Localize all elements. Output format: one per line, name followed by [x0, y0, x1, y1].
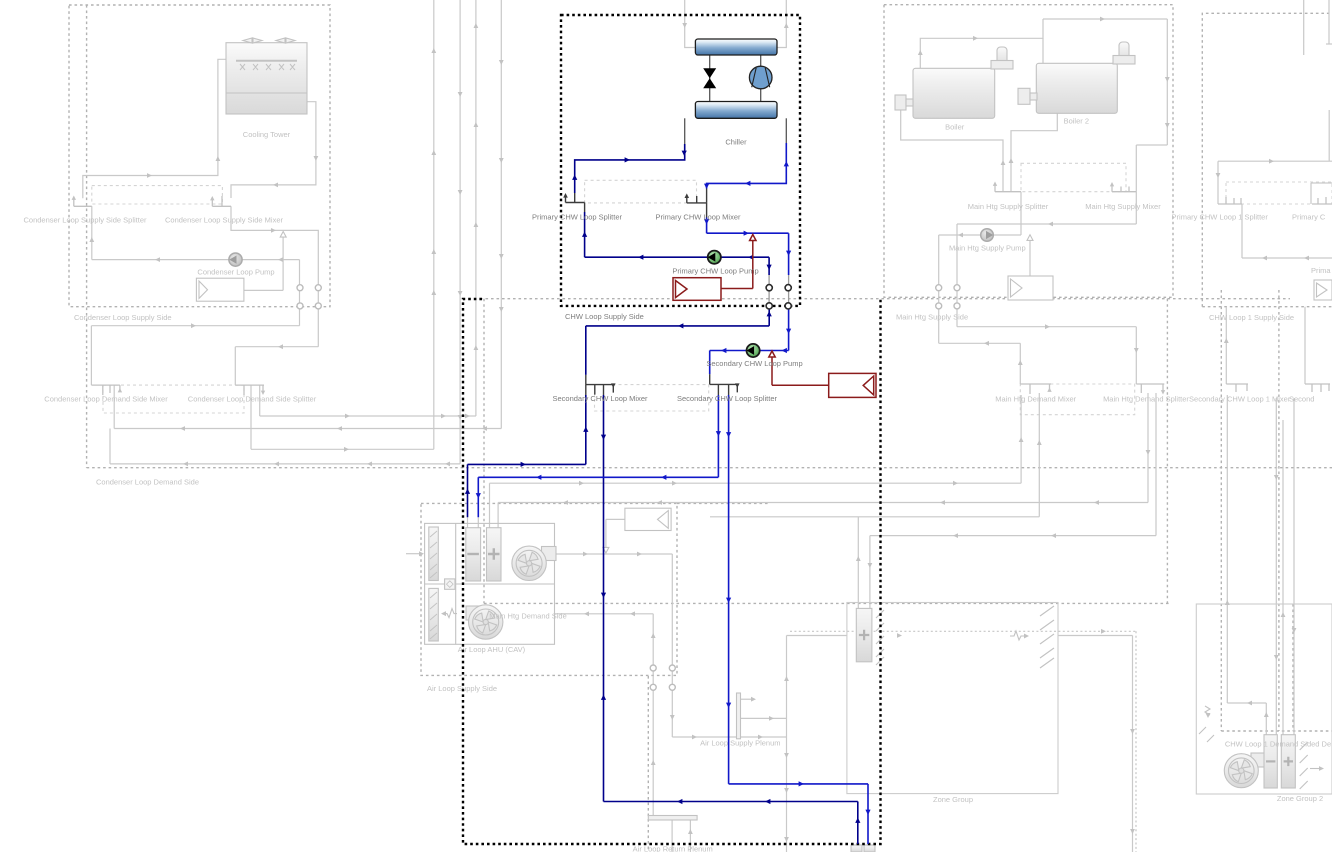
wire main htg pump line — [939, 192, 1021, 344]
arrow htg pump line left — [958, 233, 963, 238]
primary chw loop 1 splitter — [1218, 197, 1242, 204]
zone 2 squiggle arrow — [1206, 713, 1211, 718]
arrow zone1 out down1 — [1130, 729, 1135, 734]
svg-text:Primary C: Primary C — [1292, 213, 1326, 222]
ahu return fan circle — [469, 605, 503, 639]
primary chw loop 1 mixer — [1312, 197, 1332, 204]
air loop return plenum bar — [648, 816, 697, 821]
faded icon tick arrows group — [72, 182, 1166, 396]
svg-text:Secondary CHW Loop Mixer: Secondary CHW Loop Mixer — [552, 394, 648, 403]
ahu sp manager triangle — [658, 511, 669, 529]
gray node connector segments — [769, 275, 789, 306]
svg-text:Air Loop Supply Plenum: Air Loop Supply Plenum — [700, 739, 780, 748]
wire primary pump line — [585, 257, 770, 275]
arrow return duct left1 — [584, 611, 589, 616]
node condenser a1 — [297, 285, 303, 291]
blue return wires group — [468, 144, 858, 844]
zone 1 thermostat squiggle — [1010, 631, 1025, 640]
wire zone2 coil feed c — [1282, 420, 1284, 735]
svg-text:Main Htg Demand Mixer: Main Htg Demand Mixer — [995, 395, 1076, 404]
secondary chw loop 1 mixer — [1226, 384, 1248, 392]
zone 2 relief slashes — [1199, 727, 1214, 742]
node chw a1 — [766, 285, 772, 291]
wire chw1 supply upper — [1218, 161, 1332, 204]
arrow riser460 down c — [458, 291, 463, 296]
arrow mixer riser down2 — [1165, 123, 1170, 128]
tick arrow main htg demand splitter — [1161, 390, 1165, 394]
wire zone coil return — [604, 395, 858, 844]
arrow condenser demand return right — [191, 323, 196, 328]
arrow chw1 supply right — [1269, 159, 1274, 164]
cooling tower body — [226, 43, 307, 114]
chw1 supply inner dashed rect — [1226, 182, 1332, 204]
svg-text:Primary CHW Loop Pump: Primary CHW Loop Pump — [672, 267, 758, 276]
ahu oa damper upper louvers — [430, 531, 437, 578]
arrow evap out down — [682, 151, 687, 156]
node air loop a1 — [650, 665, 656, 671]
chw loop 1 demand side box left edge — [1220, 290, 1222, 731]
arrow condenser pump line left2 — [278, 257, 283, 262]
wire valve line — [709, 55, 711, 102]
arrow htg demand return left — [984, 341, 989, 346]
wire zone2 coil return — [1227, 395, 1266, 735]
main htg demand side box right edge — [1166, 299, 1168, 604]
chiller compressor — [749, 66, 772, 89]
arrow top run right — [1100, 17, 1105, 22]
arrow zone return left2 — [765, 799, 770, 804]
arrow return duct mid up — [651, 760, 656, 765]
arrow riser475 up b — [474, 23, 479, 28]
node chw b2 — [785, 303, 791, 309]
zone 2 fan blades — [1230, 760, 1252, 782]
arrow zone coil supply down — [868, 563, 873, 568]
arrow condenser row1 right2 — [441, 414, 446, 419]
blue wire arrows group — [465, 151, 871, 823]
arrow ahu feed down1 — [716, 431, 721, 436]
arrow y233 right — [744, 231, 749, 236]
tick arrow main htg demand mixer — [1047, 388, 1051, 392]
arrow condenser row4 left2 — [274, 462, 279, 467]
wire main htg demand to ahu coil supply — [498, 393, 1148, 528]
ahu intake arrow — [419, 551, 424, 556]
arrow condenser row4 left4 — [445, 462, 450, 467]
chw1 sp manager triangle — [1317, 283, 1328, 297]
arrow riser475 up — [474, 122, 479, 127]
arrow boiler2 inlet up — [1009, 158, 1014, 163]
tick arrow condenser demand mixer — [118, 388, 122, 392]
svg-text:Chiller: Chiller — [725, 138, 747, 147]
arrow zone return riser up — [855, 818, 860, 823]
arrow chw1 supply down — [1216, 173, 1221, 178]
arrow sec return left — [678, 323, 683, 328]
dark icon tick arrows group — [563, 193, 739, 388]
zone 2 heating coil — [1281, 735, 1295, 788]
main htg demand mixer — [1020, 384, 1051, 394]
main htg supply splitter — [995, 185, 1021, 192]
arrow ahu coil supply left2 — [657, 500, 662, 505]
arrow htg demand supply down — [1134, 348, 1139, 353]
arrow chw1 pump left1 — [1262, 256, 1267, 261]
wire condenser mixer outlet — [231, 206, 318, 346]
arrow condenser row1 right3 — [465, 414, 470, 419]
arrow condenser row3 right — [344, 447, 349, 452]
ahu oa damper lower louvers — [430, 592, 437, 639]
wire secondary supply to ahu coil — [478, 395, 718, 517]
air loop return plenum box left edge — [647, 676, 649, 852]
condenser loop pump circle — [229, 253, 242, 266]
chiller expansion valve — [703, 68, 716, 88]
zone 2 thermostat squiggle — [1205, 706, 1210, 715]
secondary chw sp manager wire — [772, 357, 829, 386]
arrow ahu coil supply left3 — [940, 500, 945, 505]
cooling tower spray pipe — [236, 60, 297, 62]
secondary chw loop pump — [747, 344, 760, 357]
wire primary mixer stem down — [707, 218, 789, 276]
condenser loop supply side mixer — [212, 196, 231, 206]
boiler 1 inlet tab — [906, 99, 913, 106]
wire primary splitter stem — [584, 212, 586, 257]
boiler 1 chimney — [997, 47, 1007, 69]
arrow supply duct right1 — [583, 552, 588, 557]
ahu return fan hub — [473, 609, 499, 635]
arrow condenser splitter stem up — [89, 237, 94, 242]
zone 2 heating coil plus — [1284, 757, 1293, 766]
wire supply plenum run — [672, 636, 786, 852]
boiler 1 body — [913, 68, 995, 118]
arrow return plenum up — [688, 829, 693, 834]
arrow boiler1 inlet up — [1001, 160, 1006, 165]
wire main htg demand return riser — [939, 343, 1021, 384]
zone 1 return air dotted duct — [790, 631, 1136, 852]
zone 1 reheat coil plus — [859, 630, 869, 640]
wire zone1 supply branch — [787, 635, 847, 637]
arrow ahu coil supply left4 — [1094, 500, 1099, 505]
primary mixer connector down — [706, 203, 708, 218]
arrow boiler1 out right — [973, 36, 978, 41]
wire tower inlet — [83, 59, 226, 198]
node air loop b1 — [650, 684, 656, 690]
arrow tower supply run — [147, 173, 152, 178]
zone 2 fan tab — [1251, 753, 1265, 767]
arrow zone2 feed c up — [1281, 612, 1286, 617]
arrow htg demand return up — [1018, 360, 1023, 365]
wire ahu outdoor air intake — [406, 553, 422, 555]
primary mixer bar — [687, 196, 707, 203]
wire main htg demand supply riser — [957, 327, 1136, 384]
chw loop demand side black dotted box — [463, 299, 881, 844]
arrow zone feed riser down — [865, 810, 870, 815]
zone 2 damper hatch — [1300, 742, 1308, 789]
chw loop supply side black dotted box — [561, 15, 800, 306]
secondary mixer zone tick — [603, 385, 605, 395]
wire condenser return riser — [91, 260, 299, 386]
arrow riser460 down2 — [458, 415, 463, 420]
svg-text:Secondary CHW Loop 1 Mixer: Secondary CHW Loop 1 Mixer — [1189, 395, 1291, 404]
arrow mixer riser down1 — [1165, 77, 1170, 82]
arrow sec supply down — [786, 329, 791, 334]
secondary chw inner dashed rect — [595, 385, 709, 411]
wire evaporator pipe right — [785, 118, 787, 143]
wire ahu htg coil return — [490, 395, 1022, 528]
wire boiler1 outlet — [920, 19, 1043, 68]
secondary mixer bar — [586, 385, 614, 395]
svg-text:Air Loop Return Plenum: Air Loop Return Plenum — [633, 845, 713, 852]
svg-text:Second: Second — [1289, 395, 1314, 404]
svg-text:CHW Loop Supply Side: CHW Loop Supply Side — [565, 312, 644, 321]
arrow zone2 outlet tip — [1319, 766, 1324, 771]
wire chiller evap connector right — [477, 517, 479, 528]
ahu heating coil plus — [488, 548, 500, 560]
arrow chiller cond right up — [784, 23, 789, 28]
main htg supply pump circle — [981, 229, 994, 242]
ahu heating coil — [487, 528, 502, 581]
main htg demand inner dashed rect — [1020, 384, 1134, 415]
arrow condenser row1 right1 — [345, 414, 350, 419]
chw1 sp manager box — [1314, 280, 1332, 300]
chw loop 1 demand side inner edge — [1292, 604, 1294, 731]
boiler 2 inlet tab — [1030, 93, 1037, 100]
main htg demand side box left edge — [483, 299, 485, 604]
arrow mixer top down — [704, 184, 709, 189]
node main htg a1 — [936, 285, 942, 291]
wire ahu return duct — [555, 614, 654, 817]
arrow sec pump left1 — [721, 348, 726, 353]
condenser loop demand side mixer — [91, 385, 120, 395]
arrow zone return down2 — [601, 593, 606, 598]
arrow sec pump left2 — [782, 348, 787, 353]
arrow chw1 pump left2 — [1304, 256, 1309, 261]
condenser loop demand side splitter — [235, 385, 264, 395]
secondary chw sp manager arrowhead — [769, 351, 775, 357]
secondary splitter connector up — [709, 374, 711, 384]
wire chiller evap connector left — [467, 517, 469, 528]
arrow boiler1 out up — [918, 50, 923, 55]
wire condenser sp manager — [244, 237, 283, 290]
wire condenser pump line — [92, 206, 300, 259]
tick arrow secondary mixer — [611, 383, 616, 388]
svg-text:Condenser Loop Demand Side: Condenser Loop Demand Side — [96, 478, 199, 487]
zone cut coil b — [864, 845, 875, 852]
arrow riser501 down d — [499, 254, 504, 259]
main htg sp manager triangle — [1011, 279, 1023, 297]
arrow riser475 up2 — [474, 345, 479, 350]
primary chw loop pump — [708, 251, 721, 264]
secondary mixer connector up — [585, 375, 587, 385]
highlighted labels group — [532, 138, 803, 404]
wire evaporator outlet to splitter — [575, 144, 685, 193]
primary splitter bar — [566, 197, 585, 203]
arrow ahu coil return right1 — [579, 481, 584, 486]
arrow zone2 return up — [1264, 712, 1269, 717]
arrow zone return down1 — [601, 435, 606, 440]
wire tower outlet — [231, 102, 316, 198]
arrow riser433 up b — [431, 48, 436, 53]
arrow ahu coil supply down — [1146, 450, 1151, 455]
arrow condenser pump line left1 — [155, 257, 160, 262]
wire node riser a — [768, 275, 770, 306]
arrow riser501 down c — [499, 158, 504, 163]
wire secondary pump line — [710, 306, 789, 374]
svg-text:Condenser Loop Supply Side Mix: Condenser Loop Supply Side Mixer — [165, 215, 283, 224]
arrow y183 left — [745, 181, 750, 186]
air loop ahu casing — [425, 523, 555, 644]
zone group 2 box — [1196, 604, 1332, 794]
arrow chw1 stem up — [1224, 338, 1229, 343]
air loop supply side box — [421, 503, 677, 675]
arrow mixer stem up — [583, 427, 588, 432]
ahu casing divider horizontal — [425, 583, 555, 585]
primary mixer connector up — [706, 189, 708, 203]
secondary splitter bar — [710, 384, 738, 392]
primary chw sp manager arrowhead — [750, 235, 756, 241]
svg-text:Condenser Loop Demand Side Mix: Condenser Loop Demand Side Mixer — [44, 395, 168, 404]
arrow condenser row2 left3 — [482, 426, 487, 431]
arrow tower return left — [273, 183, 278, 188]
svg-text:Cooling Tower: Cooling Tower — [243, 130, 291, 139]
node chw b1 — [766, 303, 772, 309]
svg-text:Main Htg Supply Mixer: Main Htg Supply Mixer — [1085, 202, 1161, 211]
primary chw inner dashed rect — [585, 180, 697, 203]
wire main htg demand to zone coil supply — [870, 393, 1156, 608]
arrow zone coil return up — [856, 556, 861, 561]
tick arrow condenser demand splitter — [261, 391, 265, 395]
arrow mixer down stem — [704, 219, 709, 224]
zone 1 damper hatch — [876, 610, 884, 665]
arrow chiller out up — [784, 161, 789, 166]
arrow zone1 dotted right — [897, 633, 902, 638]
arrow riser501 down — [499, 307, 504, 312]
zone 1 squiggle arrow — [1024, 634, 1029, 639]
svg-text:Condenser Loop Pump: Condenser Loop Pump — [197, 268, 274, 277]
arrow condenser demand supply left — [278, 344, 283, 349]
arrow pump line left2 — [748, 255, 753, 260]
wire condenser supply to demand splitter — [235, 347, 318, 385]
node air loop a2 — [669, 665, 675, 671]
primary chw sp manager triangle — [676, 281, 688, 298]
arrow supply duct right2 — [637, 552, 642, 557]
wire chw1 mixer feed — [1311, 183, 1332, 204]
arrow riser433 up c — [431, 150, 436, 155]
svg-text:Condenser Loop Supply Side Spl: Condenser Loop Supply Side Splitter — [24, 215, 147, 224]
svg-text:Main Htg Supply Side: Main Htg Supply Side — [896, 313, 968, 322]
arrow ahu feed left1 — [536, 475, 541, 480]
maroon setpoint managers group — [673, 235, 876, 398]
dark icon connector stubs group — [566, 189, 739, 396]
ahu sp manager box — [625, 508, 671, 530]
arrow plenum riser down3 — [784, 837, 789, 842]
zone group 1 box — [847, 603, 1058, 794]
boiler 2 chimney collar — [1113, 56, 1135, 65]
arrow tower riser up — [216, 156, 221, 161]
ahu supply fan circle — [512, 546, 546, 580]
arrow zone coil return up2 — [1037, 440, 1042, 445]
node condenser b1 — [297, 303, 303, 309]
faded loop crossing nodes group — [297, 285, 960, 691]
blue supply wires group — [478, 143, 868, 844]
arrow riser433 up d — [431, 249, 436, 254]
wire zone2 coil feed a — [1275, 398, 1277, 735]
ahu sp manager arrowhead — [603, 547, 609, 553]
arrow return duct left2 — [630, 611, 635, 616]
ahu cooling coil minus — [467, 553, 479, 555]
wire chw1 pump line — [1242, 204, 1332, 258]
supply plenum outlet arrow — [741, 698, 753, 700]
long dashed boundary y298 — [480, 298, 1290, 300]
arrow zone2 feed a down1 — [1274, 475, 1279, 480]
wire boiler1 inlet — [901, 110, 1003, 192]
wire zone1 outlet — [1058, 636, 1133, 852]
wire main htg sp manager — [1029, 240, 1031, 276]
zone 2 cooling coil minus — [1266, 760, 1275, 762]
condenser sp manager arrowhead — [280, 232, 286, 238]
arrow ahu coil return up — [1019, 437, 1024, 442]
arrow plenum tip — [751, 697, 756, 702]
zone cut coil a — [851, 845, 862, 852]
arrow splitter stem up — [582, 232, 587, 237]
node condenser b2 — [315, 303, 321, 309]
tick arrow primary splitter — [563, 193, 568, 198]
arrow zone return left1 — [677, 799, 682, 804]
chiller pipes gray — [685, 55, 787, 144]
wire main htg mixer outlet — [957, 192, 1136, 327]
arrow riser475 up c — [474, 222, 479, 227]
svg-text:Main Htg Demand Side: Main Htg Demand Side — [489, 612, 567, 621]
arrow htg mixer out left — [1048, 222, 1053, 227]
boiler 2 chimney — [1119, 42, 1129, 64]
condenser loop supply side box — [69, 5, 330, 307]
arrow zone feed right — [799, 781, 804, 786]
arrow ahu coil supply left1 — [563, 500, 568, 505]
wire evaporator pipe left — [684, 118, 686, 144]
svg-text:Primary CHW Loop Mixer: Primary CHW Loop Mixer — [655, 213, 741, 222]
arrow plenum run right1 — [692, 735, 697, 740]
svg-text:Secondary CHW Loop Splitter: Secondary CHW Loop Splitter — [677, 394, 778, 403]
svg-text:Condenser Loop Supply Side: Condenser Loop Supply Side — [74, 313, 172, 322]
condenser loop demand side box left edge — [86, 5, 88, 468]
ahu casing divider vertical — [455, 523, 457, 644]
tick arrow condenser supply mixer — [210, 196, 214, 200]
chiller condenser bar — [695, 39, 777, 55]
condenser loop supply side splitter — [74, 199, 92, 206]
arrow sec return up — [767, 311, 772, 316]
arrow zone feed down2 — [726, 598, 731, 603]
condenser loop demand side box bottom — [87, 467, 1332, 469]
svg-text:Zone Group: Zone Group — [933, 795, 973, 804]
secondary splitter tick b — [728, 384, 730, 395]
node main htg b2 — [954, 303, 960, 309]
ahu oa damper lower — [429, 588, 439, 641]
faded splitter mixer icons group — [74, 185, 1332, 395]
wire air sp manager — [606, 519, 625, 548]
ahu mixer junction diamond — [447, 581, 454, 588]
primary splitter connector up — [574, 193, 576, 203]
wire condenser demand row4 — [110, 0, 460, 464]
condenser demand inner dashed rect — [103, 385, 244, 413]
arrow ahu return up — [465, 489, 470, 494]
arrow pump line left1 — [638, 255, 643, 260]
condenser sp manager triangle — [199, 281, 208, 298]
arrow condenser row2 left2 — [337, 426, 342, 431]
wire boiler2 outlet top run — [1043, 19, 1167, 192]
chw loop 1 demand side box bottom — [1221, 730, 1332, 732]
arrow zone2 feed a down2 — [1274, 655, 1279, 660]
svg-text:Air Loop AHU (CAV): Air Loop AHU (CAV) — [458, 645, 526, 654]
main htg demand side box bottom — [484, 602, 1170, 604]
boiler 1 chimney collar — [991, 61, 1013, 70]
arrow supply down — [786, 251, 791, 256]
main htg supply inner dashed rect — [1021, 163, 1126, 191]
tick arrow main htg supply splitter — [993, 182, 997, 186]
